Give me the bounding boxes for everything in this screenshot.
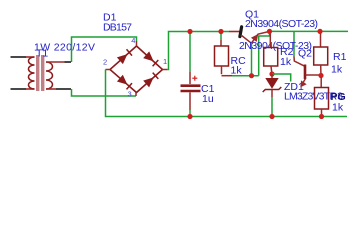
wire: secondary bottom (red + black) (46, 88, 71, 90)
zener diode ZD1 (263, 74, 282, 117)
primary winding arcs (29, 57, 35, 89)
core bar left (36, 55, 39, 91)
capacitor C1 (181, 34, 201, 117)
bridge left stub (106, 69, 111, 71)
svg-text:DB157: DB157 (103, 22, 132, 34)
diamond edges (110, 46, 163, 93)
junction dot R2/ZD1 node (269, 71, 274, 76)
core bar right (41, 55, 44, 91)
wire: secondary top (red + black) (46, 61, 71, 63)
wire: primary bottom lead (black + red) (11, 88, 35, 90)
wire: zener node to Q2 emitter (green) (272, 74, 291, 82)
base bar (black) (240, 27, 242, 37)
transistor Q1 (229, 27, 270, 44)
resistor RC (215, 34, 233, 76)
svg-text:1: 1 (163, 57, 167, 66)
junction dots on bottom rail (187, 114, 192, 119)
collector diagonal (241, 35, 252, 43)
svg-text:R1: R1 (333, 51, 347, 63)
svg-text:2: 2 (103, 58, 107, 67)
diode top-left (arrow to top node) (117, 49, 132, 64)
bridge bottom stub (135, 93, 137, 97)
transistor Q2 (294, 57, 319, 88)
collector diagonal from green (294, 57, 305, 67)
diode bottom-right (arrow to right node) (143, 73, 158, 88)
diode bottom-left (arrow to bottom node) (117, 75, 132, 90)
svg-text:1k: 1k (331, 64, 343, 76)
svg-text:1k: 1k (280, 56, 292, 68)
junction dot Q2 base node (318, 73, 323, 78)
junction dot at RC/collector node (249, 73, 254, 78)
junction dots on top rail (187, 29, 192, 34)
base bar (304, 65, 307, 80)
resistor R3 (315, 78, 329, 115)
bridge right stub (163, 69, 168, 71)
plus mark (192, 77, 197, 79)
wire: emitter node jog down-left then down (green) (259, 34, 270, 76)
svg-text:LM3Z3V3T: LM3Z3V3T (284, 91, 331, 103)
base lead (229, 31, 240, 33)
transformer T1 (29, 55, 53, 91)
wire: bridge pin 2 to negative rail (green) (106, 70, 348, 117)
bridge rectifier D1 DB157 (103, 36, 167, 99)
svg-text:1k: 1k (231, 65, 243, 77)
wire: bridge pin 1 up to positive rail (green) (167, 32, 229, 70)
wire: top rail right section (green, Q1 emitter to end) (270, 30, 349, 32)
bridge top stub (136, 41, 138, 46)
svg-text:Q2: Q2 (298, 48, 312, 60)
svg-text:1k: 1k (332, 102, 344, 114)
wire: secondary bottom to bridge pin 3 (green) (72, 89, 137, 96)
base lead (306, 74, 320, 76)
wire: primary top lead (black + red) (11, 56, 35, 58)
diode top-right (arrow to right node) (143, 51, 158, 66)
svg-text:2N3904(SOT-23): 2N3904(SOT-23) (245, 18, 318, 30)
emitter diagonal with arrow (301, 79, 306, 87)
secondary winding arcs (46, 62, 53, 89)
svg-text:3: 3 (128, 90, 132, 99)
resistor R2 (264, 34, 278, 74)
emitter diagonal with arrow (252, 31, 270, 43)
wire: Q1 collector down (green) (251, 44, 253, 76)
svg-text:T1: T1 (36, 47, 48, 59)
wire: RC bottom run (green) (232, 75, 259, 77)
resistor R1 (314, 34, 328, 74)
plates (181, 84, 201, 87)
svg-text:1u: 1u (202, 93, 214, 105)
wire: secondary top to bridge pin 4 (green) (72, 37, 137, 62)
svg-text:4: 4 (131, 36, 135, 45)
wire: rail down to Q2 collector (green) (293, 32, 295, 57)
